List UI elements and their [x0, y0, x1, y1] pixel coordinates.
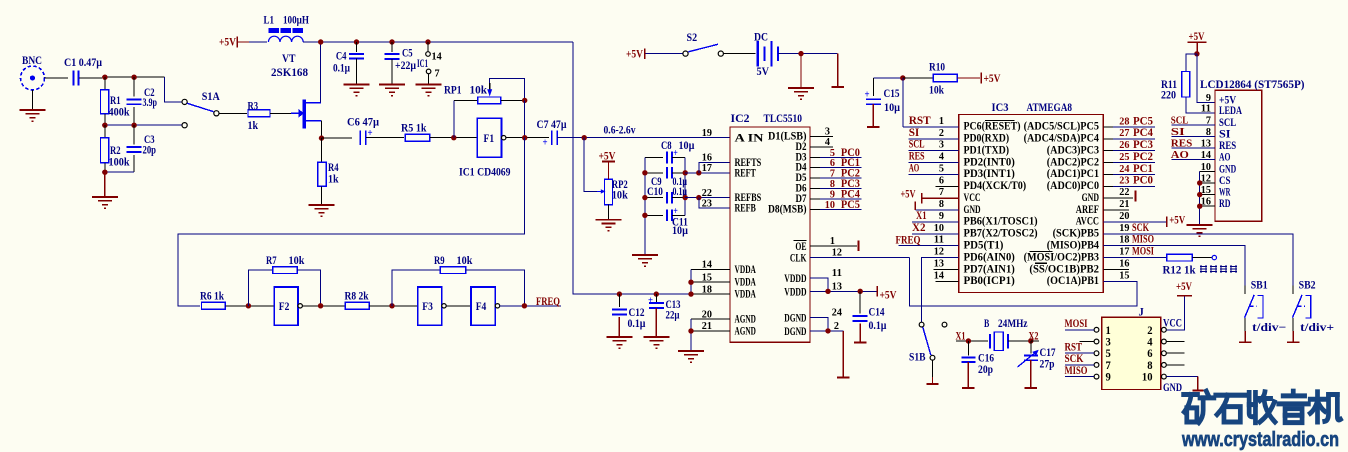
svg-text:+5V: +5V [1169, 215, 1186, 227]
svg-text:RES: RES [909, 151, 925, 163]
svg-text:12: 12 [832, 246, 843, 258]
svg-text:R2: R2 [110, 145, 121, 157]
svg-text:8: 8 [1147, 360, 1153, 372]
svg-text:7: 7 [435, 68, 441, 80]
svg-text:R6 1k: R6 1k [200, 291, 224, 303]
overline MOSI pb3 [1029, 250, 1052, 252]
ground below BNC [32, 90, 34, 110]
IC3 pin8 GND bar [915, 209, 958, 211]
svg-text:(ADC5/SCL)PC5: (ADC5/SCL)PC5 [1024, 121, 1100, 133]
svg-text:C8: C8 [661, 140, 672, 152]
svg-text:RES: RES [1219, 140, 1236, 152]
switch S1A [182, 99, 187, 104]
svg-text:PC5: PC5 [841, 199, 860, 211]
svg-text:S2: S2 [687, 32, 698, 44]
svg-text:400k: 400k [109, 107, 131, 119]
wire right reference bus [684, 158, 686, 216]
svg-text:23: 23 [702, 197, 713, 209]
svg-text:20p: 20p [978, 364, 993, 376]
wire F2 output [302, 305, 345, 307]
capacitor C5 [391, 42, 393, 52]
svg-text:AO: AO [909, 162, 920, 174]
svg-text:(MOSI/OC2)PB3: (MOSI/OC2)PB3 [1024, 251, 1100, 263]
IC2 AGND pins wiring [691, 318, 730, 320]
svg-text:(ADC3)PC3: (ADC3)PC3 [1047, 144, 1099, 156]
svg-text:+5V: +5V [984, 73, 1002, 85]
svg-text:MOSI: MOSI [1132, 246, 1154, 258]
svg-text:24: 24 [1119, 163, 1130, 175]
svg-text:X2: X2 [912, 222, 926, 234]
svg-text:PD1(TXD): PD1(TXD) [964, 144, 1010, 156]
wire RST node [873, 77, 903, 79]
svg-text:1k: 1k [248, 120, 259, 132]
svg-text:PC6(RESET): PC6(RESET) [964, 121, 1021, 133]
svg-text:+5V: +5V [626, 49, 644, 61]
svg-text:RES: RES [1171, 138, 1193, 150]
connector J pins [1094, 327, 1099, 332]
svg-text:10µ: 10µ [679, 140, 695, 152]
svg-text:F4: F4 [476, 301, 487, 313]
svg-text:PD2(INT0): PD2(INT0) [964, 156, 1015, 168]
IC3 pin10 X2 [912, 233, 959, 235]
svg-text:F3: F3 [422, 301, 433, 313]
svg-text:CS: CS [1219, 175, 1231, 187]
svg-text:21: 21 [702, 320, 712, 332]
svg-text:4: 4 [1147, 337, 1153, 349]
svg-text:X1: X1 [916, 210, 927, 222]
svg-text:R8 2k: R8 2k [345, 291, 369, 303]
capacitor C6 [322, 137, 353, 139]
svg-text:ATMEGA8: ATMEGA8 [1027, 102, 1073, 114]
svg-text:22: 22 [1119, 186, 1130, 198]
wire VT source node [321, 121, 323, 139]
svg-text:RD: RD [1219, 198, 1231, 210]
wire F1 output [506, 137, 549, 139]
svg-text:19: 19 [702, 127, 713, 139]
svg-text:13: 13 [832, 280, 843, 292]
wire LCD AO [1171, 159, 1215, 161]
wire REFBS pin22 [685, 197, 730, 199]
wire J RST [1065, 352, 1094, 354]
svg-text:1: 1 [1106, 325, 1112, 337]
svg-text:27: 27 [1119, 127, 1130, 139]
svg-text:PC5: PC5 [1133, 115, 1153, 127]
capacitor C4 [356, 42, 358, 52]
wire mid rail [102, 124, 182, 126]
svg-text:MISO: MISO [1132, 234, 1154, 246]
ground C13 [643, 336, 669, 338]
svg-text:SCL: SCL [909, 139, 925, 151]
wire F3 to F4 [446, 305, 471, 307]
svg-text:R9: R9 [434, 255, 445, 267]
svg-text:18: 18 [702, 283, 713, 295]
IC3 pin20 AVCC +5V [1103, 221, 1167, 223]
ground C5 [379, 84, 405, 86]
svg-text:9: 9 [1106, 372, 1112, 384]
capacitor C13 [654, 291, 659, 296]
capacitor C17 variable [1030, 341, 1032, 354]
IC3 pin11 FREQ [899, 245, 959, 247]
wire battery to ground node [778, 53, 838, 55]
IC3 pin22 gnd bar [1103, 197, 1133, 199]
svg-text:+5V: +5V [901, 188, 917, 200]
svg-text:2SK168: 2SK168 [271, 67, 308, 79]
watermark crystalradio logo [1184, 391, 1214, 422]
svg-text:F1: F1 [484, 133, 495, 145]
svg-text:C4: C4 [336, 51, 347, 63]
svg-text:6: 6 [939, 174, 945, 186]
svg-text:PB7(X2/TOSC2): PB7(X2/TOSC2) [964, 228, 1038, 240]
ground R4 [309, 204, 335, 206]
pushbutton SB1 [1244, 286, 1246, 294]
wire bottom rail to ground [102, 171, 134, 173]
svg-text:FREQ: FREQ [536, 296, 560, 308]
resistor R12 [1167, 254, 1193, 261]
svg-text:10k: 10k [289, 255, 305, 267]
svg-text:10k: 10k [612, 190, 629, 202]
svg-text:(ADC2)PC2: (ADC2)PC2 [1047, 156, 1099, 168]
IC1 power pin 14 [427, 42, 429, 52]
resistor R10 [903, 77, 934, 79]
svg-text:VDDA: VDDA [735, 287, 757, 301]
svg-text:22µ: 22µ [666, 310, 680, 322]
svg-text:21: 21 [1119, 198, 1129, 210]
svg-text:10: 10 [934, 222, 945, 234]
svg-text:+: + [865, 89, 870, 101]
IC3 pin14 stub [935, 280, 958, 282]
svg-text:C15: C15 [884, 88, 900, 100]
capacitor C16 [967, 341, 969, 355]
svg-text:www.crystalradio.cn: www.crystalradio.cn [1181, 428, 1339, 451]
svg-text:AGND: AGND [735, 324, 757, 338]
svg-text:15: 15 [1119, 269, 1130, 281]
svg-text:S1B: S1B [909, 352, 926, 364]
svg-text:VCC: VCC [964, 192, 981, 204]
svg-text:F2: F2 [279, 301, 290, 313]
svg-text:PC2: PC2 [1133, 151, 1153, 163]
inverter F4 [471, 287, 495, 325]
svg-text:+5V: +5V [880, 289, 898, 301]
svg-text:+: + [673, 206, 678, 217]
svg-text:2: 2 [834, 320, 840, 332]
resistor R2 [104, 125, 106, 138]
svg-text:SCL: SCL [1171, 114, 1189, 126]
overline RESET [985, 120, 1015, 122]
wire input node [102, 76, 165, 78]
svg-text:VDDD: VDDD [784, 271, 806, 285]
svg-text:PC4: PC4 [1133, 127, 1153, 139]
wire REFTS pin16 [699, 162, 730, 173]
capacitor C12 [617, 291, 622, 296]
connector J box [1102, 317, 1161, 389]
op-amp U IC2 TLC5510 box [730, 127, 810, 342]
op-amp U IC3 ATMEGA8 box [959, 115, 1104, 293]
IC3 pin19 SCK wire to SB2 [1103, 234, 1293, 294]
svg-text:R12 1k: R12 1k [1163, 265, 1197, 277]
svg-text:PD5(T1): PD5(T1) [964, 240, 1004, 252]
svg-text:2: 2 [1147, 325, 1153, 337]
svg-text:(SS/OC1B)PB2: (SS/OC1B)PB2 [1029, 263, 1099, 275]
wire S1A to R3 [219, 112, 247, 114]
wire BNC to C1 [45, 77, 69, 79]
svg-text:1: 1 [939, 115, 944, 127]
svg-text:2: 2 [939, 127, 945, 139]
svg-text:19: 19 [1119, 222, 1130, 234]
wire RP1 wiper loop [490, 78, 525, 100]
svg-text:5: 5 [1106, 348, 1112, 360]
svg-text:R3: R3 [248, 101, 259, 113]
switch S1B [919, 322, 924, 327]
IC3 pin12 wire to S1B [922, 258, 959, 323]
svg-text:1: 1 [830, 235, 835, 247]
inductor L1 [269, 29, 278, 33]
svg-text:J: J [1139, 307, 1145, 319]
svg-text:10: 10 [825, 199, 836, 211]
svg-text:C6 47µ: C6 47µ [347, 117, 379, 129]
svg-text:IC2: IC2 [731, 113, 750, 125]
wire RP1 to F1 output node [524, 100, 526, 137]
svg-text:3.9p: 3.9p [143, 97, 158, 109]
wire J MISO [1065, 376, 1094, 378]
svg-text:0.1µ: 0.1µ [333, 63, 350, 75]
svg-text:17: 17 [702, 162, 713, 174]
svg-text:WR: WR [1219, 187, 1231, 199]
svg-text:t/div−: t/div− [1252, 322, 1286, 334]
ground IC1 pin7 [416, 84, 442, 86]
svg-text:GND: GND [1163, 382, 1182, 394]
wire REFT pin17 [685, 172, 730, 174]
svg-text:VT: VT [282, 53, 296, 65]
capacitor C14 [859, 291, 861, 313]
svg-text:7: 7 [1106, 360, 1112, 372]
pushbutton SB2 [1292, 286, 1294, 294]
ground divider [92, 196, 118, 198]
ground RP2 [596, 219, 622, 221]
wire J pin6 stub [1166, 352, 1184, 354]
capacitor C7 [551, 131, 553, 145]
svg-text:23: 23 [1119, 175, 1130, 187]
svg-text:100µH: 100µH [283, 15, 309, 27]
IC3 pin18 MISO wire to SB1 [1103, 246, 1245, 294]
svg-text:R5 1k: R5 1k [401, 123, 427, 135]
IC3 pin7 VCC +5V [922, 197, 959, 199]
wire LCD SCL [1171, 124, 1215, 126]
svg-text:11: 11 [934, 234, 944, 246]
wire RP2 to ground [608, 205, 610, 220]
capacitor C3 [133, 125, 135, 144]
svg-text:CLK: CLK [790, 250, 807, 264]
wire left reference bus [644, 158, 646, 256]
IC3 pin6 stub [935, 185, 958, 187]
svg-text:PB0(ICP1): PB0(ICP1) [964, 275, 1015, 287]
svg-text:X1: X1 [956, 331, 966, 343]
IC3 pin15 wire to CLK route [909, 258, 1137, 307]
IC2 VDDA pins wiring [691, 268, 730, 270]
IC3 left pin wires [903, 126, 959, 128]
svg-text:GND: GND [1082, 192, 1099, 204]
svg-text:18: 18 [1119, 234, 1130, 246]
svg-text:L1: L1 [264, 15, 275, 27]
inverter F2 [274, 287, 298, 325]
IC3 pin13 stub [933, 268, 958, 270]
capacitor C11 [645, 214, 663, 216]
IC3 pin21 stub [1103, 209, 1129, 211]
wire feedback from output node down-left [178, 138, 525, 306]
svg-text:25: 25 [1119, 151, 1130, 163]
svg-text:GND: GND [1219, 163, 1236, 175]
transistor VT 2SK168 [291, 110, 303, 116]
svg-text:PC0: PC0 [1133, 175, 1153, 187]
svg-text:+5V: +5V [1176, 281, 1193, 293]
svg-text:AO: AO [1171, 149, 1189, 161]
potentiometer RP2 [605, 179, 613, 205]
svg-text:(MISO)PB4: (MISO)PB4 [1047, 240, 1099, 252]
wire R3 to VT gate [270, 112, 295, 114]
power +5V J [1177, 295, 1192, 297]
wire J pin3 stub [1079, 341, 1094, 343]
RP1 wiper arrow [489, 83, 491, 90]
wire +5V to LCD pin9 [1197, 54, 1215, 103]
IC3 pin9 X1 [912, 221, 959, 223]
IC3 right pins PC5-PC0 [1103, 126, 1113, 128]
svg-text:11: 11 [832, 267, 842, 279]
ground AGND [678, 350, 704, 352]
svg-text:14: 14 [702, 259, 713, 271]
svg-text:BNC: BNC [22, 55, 42, 67]
wire REFB pin23 [699, 198, 730, 209]
svg-text:3: 3 [1106, 337, 1112, 349]
svg-text:REFT: REFT [735, 165, 756, 179]
resistor R11 [1186, 54, 1197, 72]
wire C7 to AIN [557, 137, 730, 139]
wire J pin4 stub [1166, 341, 1184, 343]
svg-text:PD6(AIN0): PD6(AIN0) [964, 251, 1015, 263]
ground DC [800, 54, 802, 88]
wire F4 output FREQ [500, 305, 561, 307]
svg-text:RP1: RP1 [444, 85, 462, 97]
svg-text:REFB: REFB [735, 201, 756, 215]
svg-text:11: 11 [1201, 102, 1211, 114]
wire VT drain to +5V rail [320, 42, 322, 103]
svg-text:AO: AO [1219, 152, 1231, 164]
svg-text:PC1: PC1 [1133, 163, 1153, 175]
battery DC 5V [757, 41, 759, 66]
wire LCD RES [1171, 147, 1215, 149]
capacitor C1 [72, 71, 74, 86]
svg-text:14: 14 [432, 51, 443, 63]
svg-text:S1A: S1A [202, 91, 221, 103]
wire R5 to F1 input node [430, 137, 477, 139]
svg-text:C7 47µ: C7 47µ [537, 119, 567, 131]
svg-text:IC1 CD4069: IC1 CD4069 [459, 167, 511, 179]
wire J GND [1166, 376, 1198, 378]
wire RST down to pin1 [902, 78, 904, 127]
ground LCD [1187, 224, 1213, 226]
svg-text:SCK: SCK [1132, 222, 1149, 234]
svg-text:AVCC: AVCC [1076, 216, 1099, 228]
capacitor C8 [645, 157, 663, 159]
svg-text:C5: C5 [402, 48, 413, 60]
ground reference bus [632, 254, 658, 256]
svg-text:20: 20 [1119, 210, 1130, 222]
svg-text:PD7(AIN1): PD7(AIN1) [964, 263, 1015, 275]
wire +5V rail [303, 41, 573, 43]
svg-text:C14: C14 [869, 307, 885, 319]
resistor R9 feedback [392, 270, 440, 306]
IC3 pin16 stub [1103, 268, 1129, 270]
wire S1B to ground [932, 360, 934, 384]
svg-text:16: 16 [1119, 257, 1130, 269]
inverter F1 [477, 118, 501, 157]
svg-text:LEDA: LEDA [1219, 105, 1242, 117]
svg-text:13: 13 [934, 257, 945, 269]
IC3 pin17 MOSI wire to R12 [1103, 257, 1167, 259]
wire J VCC to +5V [1166, 297, 1184, 330]
svg-text:20p: 20p [143, 145, 157, 157]
svg-text:+5V: +5V [219, 37, 237, 49]
svg-text:0.6-2.6v: 0.6-2.6v [604, 125, 636, 137]
svg-text:SCL: SCL [1219, 117, 1236, 129]
svg-text:MISO: MISO [1065, 365, 1088, 377]
svg-text:10k: 10k [470, 85, 488, 97]
svg-text:7: 7 [939, 186, 945, 198]
svg-text:SCK: SCK [1065, 353, 1084, 365]
svg-text:VDDD: VDDD [784, 284, 806, 298]
power +5V R10 [980, 73, 982, 84]
svg-text:AREF: AREF [1076, 204, 1099, 216]
svg-text:PD0(RXD): PD0(RXD) [964, 133, 1010, 145]
svg-text:D8(MSB): D8(MSB) [768, 201, 807, 215]
svg-text:+22µ: +22µ [395, 60, 416, 72]
wire S2 to battery [723, 53, 755, 55]
potentiometer RP1 [453, 100, 455, 137]
svg-text:LCD12864 (ST7565P): LCD12864 (ST7565P) [1200, 77, 1305, 91]
resistor R7 feedback [248, 270, 272, 306]
svg-text:FREQ: FREQ [896, 235, 921, 247]
ground C4 [344, 84, 370, 86]
svg-text:220: 220 [1161, 90, 1176, 102]
svg-text:10µ: 10µ [672, 225, 688, 237]
svg-text:100k: 100k [109, 157, 131, 169]
wire LCD GND CS WR RD [1200, 170, 1215, 172]
svg-text:+: + [673, 148, 678, 159]
svg-text:IC3: IC3 [992, 102, 1009, 114]
svg-text:t/div+: t/div+ [1300, 322, 1334, 334]
svg-text:9: 9 [939, 210, 945, 222]
svg-text:C10: C10 [647, 186, 663, 198]
svg-text:R10: R10 [929, 62, 945, 74]
overline SS [1035, 262, 1047, 264]
svg-text:R1: R1 [110, 95, 121, 107]
svg-text:PD4(XCK/T0): PD4(XCK/T0) [964, 180, 1027, 192]
svg-text:5: 5 [939, 162, 945, 174]
wire J SCK [1065, 364, 1094, 366]
svg-text:10k: 10k [457, 255, 473, 267]
svg-text:C17: C17 [1040, 347, 1056, 359]
wire R8 to F3 [369, 305, 418, 307]
svg-text:PC3: PC3 [1133, 139, 1153, 151]
svg-text:RST: RST [909, 115, 931, 127]
svg-text:DGND: DGND [784, 311, 806, 325]
svg-text:20: 20 [702, 308, 713, 320]
svg-text:28: 28 [1119, 115, 1130, 127]
wire R6 to F2 [225, 305, 274, 307]
wire to S1A upper contact [165, 77, 182, 102]
svg-text:1k: 1k [328, 174, 339, 186]
wire DGND to ground bar [842, 331, 844, 378]
resistor R8 [345, 302, 369, 309]
svg-text:SB2: SB2 [1299, 280, 1316, 292]
